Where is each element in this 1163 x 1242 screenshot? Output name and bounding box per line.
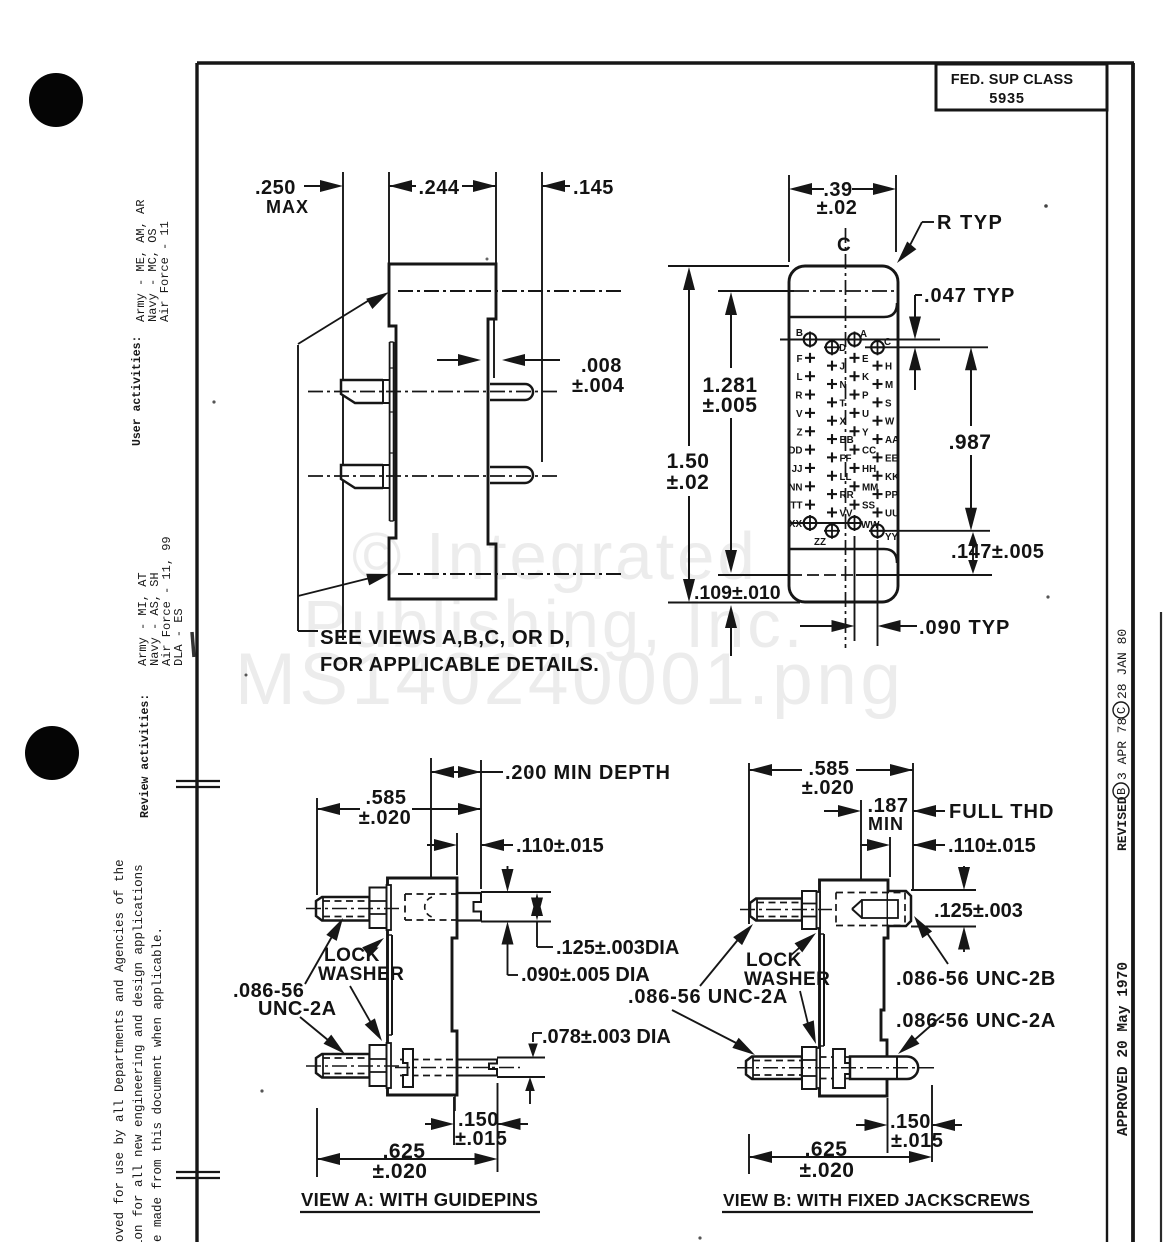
- punch hole top: [29, 73, 83, 127]
- view B dimension .150 +-.015: [856, 1124, 866, 1126]
- view B jackscrew bottom shank: [746, 1057, 802, 1080]
- svg-text:Y: Y: [862, 427, 869, 438]
- pin L: [805, 375, 815, 377]
- svg-text:to be made from this document: to be made from this document when appli…: [151, 927, 165, 1242]
- pin J: [827, 365, 837, 367]
- centerline lower pins: [308, 475, 558, 477]
- right paper edge mark: [1160, 612, 1162, 1242]
- pin RR: [827, 493, 837, 495]
- view B flange edge: [823, 934, 825, 1046]
- pin SS: [850, 504, 860, 506]
- svg-text:DLA - ES: DLA - ES: [172, 608, 186, 666]
- pin XX: [804, 517, 817, 530]
- leader bracket to SEE VIEWS note: [297, 345, 299, 631]
- view A extension line mating face: [480, 760, 482, 889]
- view A extension line .150 left: [453, 1097, 455, 1145]
- pin TT: [805, 504, 815, 506]
- svg-text:.090 TYP: .090 TYP: [919, 617, 1010, 639]
- svg-text:KK: KK: [885, 472, 899, 483]
- svg-text:C: C: [884, 337, 891, 348]
- contact pin upper (side view): [490, 384, 533, 400]
- dimension 1.281 +-.005: [725, 292, 737, 315]
- dimension .987: [965, 347, 977, 370]
- svg-text:.110±.015: .110±.015: [516, 835, 604, 857]
- view B extension line mating face: [912, 763, 914, 889]
- view A contact pin protruding: [457, 1060, 497, 1076]
- view B thread cone: [852, 900, 862, 909]
- connector front view body: [789, 266, 898, 602]
- svg-text:.147±.005: .147±.005: [951, 541, 1044, 563]
- pin FF: [827, 456, 837, 458]
- svg-text:.244: .244: [419, 177, 460, 199]
- fed sup class box: [936, 64, 1107, 110]
- svg-text:Review activities:: Review activities:: [139, 694, 152, 818]
- datum line top (dash-dot): [398, 290, 622, 292]
- svg-text:5935: 5935: [989, 91, 1024, 107]
- svg-text:C: C: [837, 235, 851, 256]
- fold mark lower: [176, 1171, 220, 1173]
- svg-text:HH: HH: [862, 464, 876, 475]
- svg-text:W: W: [885, 417, 895, 428]
- view A centerline top screw: [306, 908, 402, 910]
- view A retention tab: [403, 1049, 413, 1087]
- dimension .147 +-.005: [968, 532, 978, 546]
- view A barrel extension lines: [481, 891, 551, 893]
- svg-text:DD: DD: [788, 446, 802, 457]
- svg-text:B: B: [1115, 788, 1129, 795]
- pin K: [850, 375, 860, 377]
- svg-text:NN: NN: [788, 482, 802, 493]
- svg-text:VIEW A: WITH GUIDEPINS: VIEW A: WITH GUIDEPINS: [301, 1189, 538, 1210]
- svg-text:F: F: [797, 354, 803, 365]
- dimension .090 TYP: [800, 625, 832, 627]
- view B lock washer top: [817, 892, 821, 928]
- view A socket contact hidden lines: [400, 1059, 457, 1061]
- view A dimension .078 DIA: [533, 1032, 542, 1034]
- svg-text:Air Force - 11: Air Force - 11: [158, 221, 172, 322]
- svg-text:FOR APPLICABLE DETAILS.: FOR APPLICABLE DETAILS.: [320, 654, 599, 676]
- view A guide pin screw bottom: [316, 1054, 370, 1078]
- pin PP: [873, 493, 883, 495]
- svg-text:.585: .585: [366, 787, 407, 809]
- svg-text:U: U: [862, 409, 869, 420]
- svg-text:±.015: ±.015: [891, 1130, 943, 1152]
- svg-text:SEE VIEWS A,B,C, OR D,: SEE VIEWS A,B,C, OR D,: [320, 626, 571, 649]
- pin T: [827, 401, 837, 403]
- svg-text:JJ: JJ: [792, 464, 803, 475]
- pin VV: [827, 511, 837, 513]
- side view extension line pin-tip: [342, 172, 344, 640]
- svg-text:VV: VV: [840, 508, 854, 519]
- svg-text:.086-56 UNC-2A: .086-56 UNC-2A: [896, 1010, 1056, 1032]
- svg-text:B: B: [796, 328, 803, 339]
- svg-text:SS: SS: [862, 501, 876, 512]
- front view .39 extension lines: [788, 175, 790, 262]
- view A centerline bottom screw: [306, 1065, 402, 1067]
- svg-text:±.02: ±.02: [817, 197, 858, 219]
- view B barrel extension lines: [911, 889, 976, 891]
- svg-text:.078±.003 DIA: .078±.003 DIA: [542, 1026, 671, 1048]
- svg-text:XX: XX: [789, 519, 803, 530]
- pin EE: [873, 456, 883, 458]
- view B centerline bottom screw: [737, 1067, 935, 1069]
- svg-text:R TYP: R TYP: [937, 212, 1003, 234]
- svg-text:.125±.003: .125±.003: [934, 900, 1023, 922]
- view A dimension .125 DIA: [536, 899, 538, 914]
- pin CC: [850, 449, 860, 451]
- svg-text:BB: BB: [840, 435, 854, 446]
- pin Z: [805, 430, 815, 432]
- pin R: [805, 393, 815, 395]
- svg-text:.090±.005 DIA: .090±.005 DIA: [521, 964, 650, 986]
- pin row line C: [865, 346, 988, 348]
- svg-text:±.020: ±.020: [802, 777, 854, 799]
- view B extension line thread depth: [860, 800, 862, 903]
- bottom datum line: [718, 574, 790, 576]
- view B centerline top screw: [740, 909, 832, 911]
- view A nut top: [370, 888, 387, 929]
- datum line bottom (dash-dot): [398, 573, 625, 575]
- pin AA: [873, 438, 883, 440]
- view A dimension .625 +-.020: [317, 1153, 340, 1165]
- .090 extension line left: [854, 536, 856, 641]
- svg-text:T: T: [840, 398, 846, 409]
- pin row line A: [780, 339, 940, 341]
- guide pin lower (side view): [341, 465, 383, 488]
- connector body side view outline: [389, 264, 496, 599]
- svg-text:D: D: [839, 343, 846, 354]
- pin LL: [827, 475, 837, 477]
- view B lock washer bottom: [817, 1048, 821, 1088]
- svg-text:K: K: [862, 372, 869, 383]
- pin Y: [850, 430, 860, 432]
- svg-text:V: V: [796, 409, 803, 420]
- view A body outline: [388, 878, 458, 1095]
- svg-text:PP: PP: [885, 490, 899, 501]
- svg-text:UU: UU: [885, 508, 899, 519]
- pin W: [873, 420, 883, 422]
- svg-text:RR: RR: [840, 490, 854, 501]
- svg-text:FULL THD: FULL THD: [949, 801, 1054, 823]
- svg-text:Z: Z: [797, 427, 803, 438]
- pin S: [873, 401, 883, 403]
- svg-text:.086-56 UNC-2A: .086-56 UNC-2A: [628, 986, 788, 1008]
- svg-text:±.020: ±.020: [800, 1159, 855, 1182]
- svg-text:MIN: MIN: [868, 814, 904, 834]
- view B jackscrew top: [750, 899, 802, 921]
- svg-text:.047 TYP: .047 TYP: [924, 285, 1015, 307]
- svg-text:R: R: [795, 391, 802, 402]
- view A dimension .150 +-.015: [425, 1123, 432, 1125]
- view A flange edge: [391, 935, 393, 1035]
- bottom edge extension left: [668, 602, 800, 604]
- pin KK: [873, 475, 883, 477]
- svg-text:APPROVED 20 May 1970: APPROVED 20 May 1970: [1116, 962, 1132, 1136]
- svg-text:Selection for all new engineer: Selection for all new engineering and de…: [132, 864, 146, 1242]
- contact pin lower (side view): [490, 467, 533, 483]
- .090 extension line right: [877, 540, 879, 646]
- svg-text:M: M: [885, 380, 893, 391]
- svg-text:1.50: 1.50: [667, 450, 710, 473]
- pin P: [850, 393, 860, 395]
- pin N: [827, 383, 837, 385]
- svg-text:EE: EE: [885, 453, 899, 464]
- svg-text:.110±.015: .110±.015: [948, 835, 1036, 857]
- svg-text:H: H: [885, 362, 892, 373]
- svg-text:C: C: [1115, 707, 1129, 714]
- svg-text:FED. SUP CLASS: FED. SUP CLASS: [951, 72, 1074, 88]
- svg-text:.125±.003DIA: .125±.003DIA: [556, 937, 679, 959]
- pin MM: [850, 485, 860, 487]
- view B full thread zone: [862, 900, 898, 918]
- svg-text:User activities:: User activities:: [131, 336, 144, 446]
- svg-text:X: X: [840, 417, 847, 428]
- scan specks: [212, 400, 215, 403]
- pin D: [826, 341, 839, 354]
- pen mark on border: [192, 632, 194, 657]
- svg-text:±.02: ±.02: [667, 471, 710, 494]
- view A pin centerline: [395, 1067, 520, 1069]
- svg-text:.987: .987: [949, 431, 992, 454]
- svg-text:ZZ: ZZ: [814, 537, 826, 548]
- view B dimension .585 +-.020: [749, 764, 772, 776]
- svg-text:REVISED: REVISED: [1115, 796, 1130, 851]
- view A dimension .200 MIN DEPTH: [431, 766, 454, 778]
- view A extension line body face: [456, 833, 458, 875]
- fold mark upper: [176, 780, 220, 782]
- top datum dash-dot line: [718, 290, 794, 292]
- dimension .008 +-.004: [493, 320, 495, 378]
- punch hole bottom: [25, 726, 79, 780]
- pin U: [850, 412, 860, 414]
- pin H: [873, 365, 883, 367]
- svg-text:±.004: ±.004: [572, 375, 625, 397]
- pin BB: [827, 438, 837, 440]
- pin E: [850, 357, 860, 359]
- side view extension line left-face: [388, 172, 390, 264]
- side view extension line .145: [541, 172, 543, 462]
- view A extension line pin tips: [316, 798, 318, 895]
- view B dimension .187 MIN: [824, 810, 839, 812]
- view A receptacle hole hidden lines: [405, 893, 458, 895]
- page frame border: [197, 61, 1134, 64]
- svg-text:P: P: [862, 391, 869, 402]
- pin YY: [871, 525, 884, 538]
- view B threaded barrel: [888, 891, 911, 926]
- svg-text:FF: FF: [840, 453, 852, 464]
- pin B: [804, 333, 817, 346]
- view B jackscrew hidden through body: [820, 1056, 851, 1058]
- pin X: [827, 420, 837, 422]
- view A barrel: [457, 892, 481, 894]
- dimension .145: [542, 180, 565, 192]
- svg-text:S: S: [885, 398, 892, 409]
- view A dimension .585 +-.020: [317, 803, 340, 815]
- view A guide pin screw top: [316, 897, 370, 921]
- view B dimension .125 +-.003: [963, 866, 965, 869]
- pin F: [805, 357, 815, 359]
- svg-text:YY: YY: [885, 532, 899, 543]
- watermark: [235, 519, 904, 720]
- view B extension line .150 left: [887, 1098, 889, 1153]
- svg-text:.625: .625: [805, 1138, 848, 1161]
- view A extension line hole bottom: [430, 758, 432, 893]
- view A dimension .090 DIA: [507, 866, 509, 870]
- pin ZZ: [826, 525, 839, 538]
- svg-text:.086-56 UNC-2B: .086-56 UNC-2B: [896, 968, 1056, 990]
- view A centerline below: [454, 1096, 456, 1114]
- view B retention tab: [833, 1049, 855, 1088]
- centerline upper pins: [308, 391, 560, 393]
- view B label FULL THD: [913, 805, 936, 817]
- dimension .39 +-.02: [789, 183, 812, 195]
- view B thread hole hidden: [836, 892, 905, 894]
- vertical centerline: [845, 228, 847, 648]
- svg-text:±.020: ±.020: [373, 1160, 428, 1183]
- contact pin grid: [788, 328, 899, 548]
- insert top line: [790, 303, 897, 317]
- svg-text:28 JAN 80: 28 JAN 80: [1115, 629, 1130, 699]
- svg-text:MAX: MAX: [266, 197, 309, 217]
- pin DD: [805, 449, 815, 451]
- svg-text:WASHER: WASHER: [318, 964, 404, 985]
- svg-text:L: L: [797, 372, 803, 383]
- svg-text:UNC-2A: UNC-2A: [258, 998, 337, 1020]
- dimension .047 TYP: [914, 295, 916, 317]
- svg-text:CC: CC: [862, 446, 876, 457]
- svg-text:.145: .145: [573, 177, 614, 199]
- svg-text:LL: LL: [840, 472, 852, 483]
- svg-text:J: J: [840, 362, 845, 373]
- svg-text:3 APR 78: 3 APR 78: [1115, 718, 1130, 780]
- pin UU: [873, 511, 883, 513]
- pin NN: [805, 485, 815, 487]
- view A lock washer bottom: [387, 1043, 392, 1088]
- svg-text:Approved for use by all Depart: Approved for use by all Departments and …: [113, 859, 127, 1242]
- pin A: [848, 333, 861, 346]
- insert bottom line: [790, 549, 897, 563]
- view B jackscrew protruding right: [850, 1057, 918, 1080]
- view A nut bottom: [370, 1045, 387, 1086]
- view B dimension .110 +-.015: [860, 844, 868, 846]
- pin row line bottom XX: [790, 522, 860, 524]
- view B body outline: [820, 880, 889, 1096]
- view A extension line right: [497, 1083, 499, 1172]
- view B dimension .625 +-.020: [749, 1151, 772, 1163]
- view B extension line right: [931, 1085, 933, 1162]
- svg-text:TT: TT: [791, 501, 803, 512]
- top edge extension left: [668, 265, 789, 267]
- view A lock washer top: [387, 885, 392, 930]
- svg-text:.109±.010: .109±.010: [694, 582, 781, 604]
- pin V: [805, 412, 815, 414]
- svg-text:MM: MM: [862, 482, 878, 493]
- svg-text:VIEW B: WITH FIXED JACKSCREWS: VIEW B: WITH FIXED JACKSCREWS: [723, 1190, 1030, 1210]
- view B extension line .110: [889, 837, 891, 877]
- side view extension line right-face: [495, 172, 497, 264]
- svg-text:N: N: [840, 380, 847, 391]
- svg-text:±.015: ±.015: [455, 1128, 507, 1150]
- svg-text:MS140240001.png: MS140240001.png: [235, 639, 904, 720]
- view A pin extension lines: [497, 1057, 545, 1059]
- svg-text:A: A: [860, 329, 867, 340]
- pin WW: [848, 517, 861, 530]
- view B nut top: [802, 891, 817, 929]
- pin C: [871, 341, 884, 354]
- view B extension line left: [748, 763, 750, 924]
- svg-text:E: E: [862, 354, 869, 365]
- pin row line bottom YY: [869, 530, 990, 532]
- pin JJ: [805, 467, 815, 469]
- pin HH: [850, 467, 860, 469]
- mounting flange edge lines: [389, 342, 391, 521]
- pin M: [873, 383, 883, 385]
- svg-text:±.005: ±.005: [703, 394, 758, 417]
- dimension 1.50 +-.02: [683, 267, 695, 290]
- svg-text:.008: .008: [581, 355, 622, 377]
- dimension .244: [389, 180, 412, 192]
- svg-text:±.020: ±.020: [359, 807, 411, 829]
- guide pin upper (side view): [341, 380, 383, 403]
- svg-text:AA: AA: [885, 435, 899, 446]
- view A dimension .110 +-.015: [427, 844, 435, 846]
- view B nut bottom: [802, 1047, 817, 1089]
- svg-text:.250: .250: [255, 177, 296, 199]
